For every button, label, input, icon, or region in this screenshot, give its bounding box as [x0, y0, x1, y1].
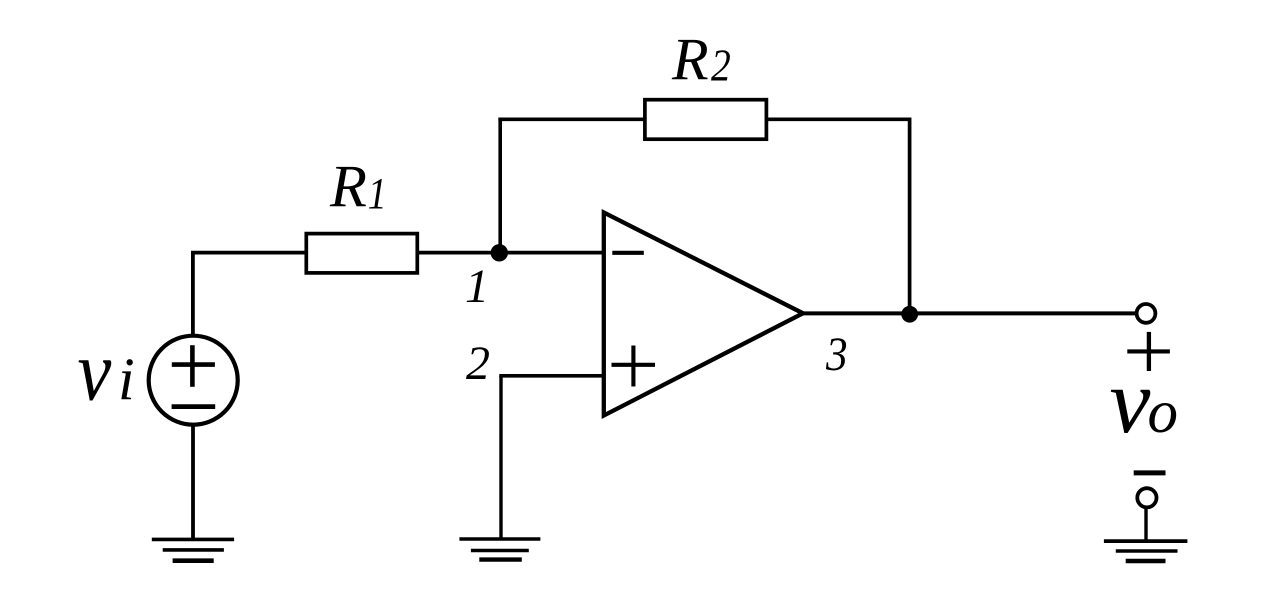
- svg-text:1: 1: [368, 169, 387, 218]
- label - (output polarity): [1134, 470, 1166, 475]
- svg-text:o: o: [1148, 379, 1179, 446]
- label R2: [671, 26, 731, 92]
- svg-text:2: 2: [711, 41, 731, 91]
- svg-text:R: R: [671, 26, 709, 92]
- svg-text:1: 1: [465, 260, 489, 313]
- wire top left to R2: [498, 117, 646, 121]
- label vi: [78, 323, 135, 418]
- svg-text:2: 2: [466, 337, 490, 390]
- label vo: [1110, 350, 1179, 452]
- label + (output polarity): [1127, 332, 1170, 371]
- wire node 2 to op-amp non-inverting input: [499, 374, 604, 378]
- wire feedback riser at node 1: [498, 118, 502, 253]
- svg-text:v: v: [1110, 350, 1151, 452]
- wire vi bottom to ground: [191, 424, 195, 539]
- label R1: [329, 154, 387, 221]
- wire R2 to right riser: [766, 117, 911, 121]
- resistor R1: [306, 234, 417, 273]
- output terminal positive: [1137, 304, 1156, 323]
- voltage source vi: [149, 336, 238, 425]
- node 1 junction dot: [491, 244, 508, 261]
- ground (vi): [152, 539, 234, 560]
- svg-text:R: R: [329, 154, 367, 221]
- ground (non-inverting input): [459, 539, 540, 560]
- ground (output): [1104, 541, 1188, 561]
- wire op-amp output to output terminal: [803, 311, 1135, 315]
- svg-text:v: v: [78, 323, 113, 418]
- resistor R2: [645, 100, 767, 140]
- node 3 junction dot: [901, 306, 918, 323]
- wire negative terminal to ground: [1144, 507, 1147, 541]
- output terminal negative: [1137, 488, 1156, 507]
- label 3: [825, 327, 848, 381]
- wire vi to R1: [191, 251, 306, 255]
- svg-text:i: i: [118, 346, 135, 412]
- label 1: [465, 260, 489, 313]
- wire vi top to main input wire: [191, 253, 195, 337]
- label 2: [466, 337, 490, 390]
- wire R1 to op-amp inverting input: [417, 251, 604, 255]
- wire node 2 down to ground: [499, 376, 502, 539]
- svg-text:3: 3: [825, 327, 848, 381]
- wire right riser down to node 3: [908, 118, 912, 314]
- op-amp U1: [604, 213, 803, 416]
